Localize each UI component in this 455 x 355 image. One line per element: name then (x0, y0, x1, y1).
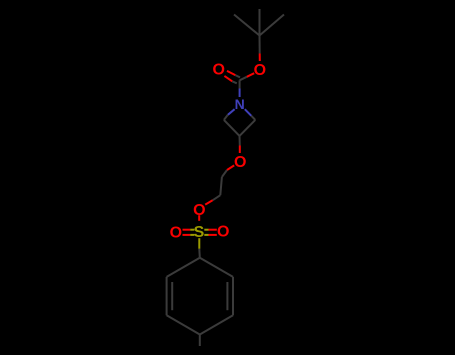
svg-text:N: N (235, 96, 245, 112)
tert-butyl methyl bond M3 (259, 9, 261, 36)
double bond S=O left line 2 sulfur part (190, 234, 194, 236)
bond N-C2 carbon half (251, 116, 255, 120)
svg-text:O: O (212, 62, 224, 79)
benzene edge E5 (166, 277, 168, 315)
benzene inner double bond left (171, 282, 173, 310)
benzene edge E4 (167, 315, 200, 334)
bond C3-O1 carbon half (239, 136, 241, 146)
bond S-ipso sulfur half (198, 238, 200, 249)
double bond S=O right line 2 sulfur part (204, 234, 208, 236)
svg-text:O: O (254, 62, 266, 79)
bond Ccarbonyl-N carbon half (239, 80, 241, 88)
double bond C=O line 2 carbon part (232, 81, 237, 83)
tert-butyl methyl bond M2 (260, 15, 285, 36)
bond C4-C3 (224, 120, 240, 136)
bond Oester-Ccarbonyl carbon half (240, 77, 247, 81)
bond O2-S (198, 215, 200, 221)
double bond S=O left line 2 oxygen part (183, 234, 191, 236)
tert-butyl methyl bond M1 (234, 15, 260, 36)
bond N-C4 nitrogen half (228, 109, 235, 115)
bond para methyl (199, 335, 201, 347)
bond Cq-Oester oxygen half (259, 54, 261, 62)
bond Cq-Oester carbon half (259, 36, 261, 54)
benzene inner double bond right (226, 282, 228, 310)
double bond C=O line 1 oxygen part (227, 71, 235, 75)
bond N-C4 carbon half (224, 115, 228, 120)
bond Ccarbonyl-N nitrogen half (239, 89, 241, 98)
double bond S=O right line 2 oxygen part (209, 234, 217, 236)
benzene edge E2 (232, 277, 234, 315)
bond Cb-O2 carbon half (213, 195, 221, 200)
double bond C=O line 1 carbon part (235, 75, 240, 77)
bond O1-Ca oxygen half (227, 165, 234, 170)
bond C3-O1 oxygen half (239, 146, 241, 154)
bond C2-C3 (240, 120, 256, 136)
bond Oester-Ccarbonyl oxygen half (247, 73, 254, 77)
benzene edge E1 (200, 258, 233, 277)
svg-text:O: O (234, 154, 246, 171)
bond S-ipso carbon half (198, 249, 201, 258)
double bond S=O right line 1 sulfur part (204, 229, 208, 231)
double bond S=O left line 1 sulfur part (190, 229, 194, 231)
svg-text:O: O (170, 224, 182, 241)
double bond C=O line 2 oxygen part (224, 76, 232, 81)
benzene edge E3 (200, 315, 233, 334)
bond Ca-Cb (220, 177, 222, 195)
double bond S=O left line 1 oxygen part (183, 229, 191, 231)
bond Cb-O2 oxygen half (205, 200, 212, 204)
double bond S=O right line 1 oxygen part (209, 229, 217, 231)
benzene edge E6 (167, 258, 200, 277)
svg-text:O: O (217, 224, 229, 241)
bond N-C2 nitrogen half (245, 109, 252, 116)
bond O1-Ca carbon half (222, 170, 227, 177)
